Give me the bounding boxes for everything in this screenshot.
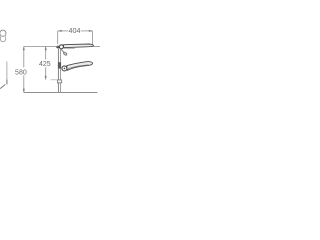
left edge handle lower outline xyxy=(0,36,5,41)
arrow right of 404 xyxy=(89,30,93,32)
small diagonal lever xyxy=(61,49,64,52)
top lever left knob xyxy=(56,46,59,49)
top lever blade lower contour xyxy=(64,47,75,50)
pipe right edge middle xyxy=(60,69,62,80)
dimension 404 line right segment xyxy=(81,30,93,32)
dimension 580 line lower xyxy=(23,75,25,92)
left edge handle circle xyxy=(0,30,6,36)
425 bottom reference tick xyxy=(51,79,58,81)
small diagonal lever paddle xyxy=(63,52,67,56)
left vertical line dark end xyxy=(6,80,8,85)
pipe left edge xyxy=(57,49,59,93)
svg-text:580: 580 xyxy=(15,70,27,77)
top lever blade xyxy=(64,44,94,48)
lower lever boss xyxy=(62,66,67,71)
svg-text:404: 404 xyxy=(69,26,81,35)
extension line left of 404 xyxy=(57,31,59,44)
arrow bottom of 580 xyxy=(23,89,25,93)
dimension 404 line left segment xyxy=(58,30,68,32)
dimension 425 line upper xyxy=(45,46,47,59)
bottom extension line xyxy=(24,92,98,94)
dimension 580 line upper xyxy=(23,46,25,67)
extension line right of 404 xyxy=(92,31,94,45)
top extension line (shared) xyxy=(24,45,58,47)
lower lever blade xyxy=(67,62,93,71)
svg-text:425: 425 xyxy=(39,61,51,68)
lower lever boss center xyxy=(64,68,66,70)
arrow bottom of 425 xyxy=(45,76,47,80)
dimension 425 line lower xyxy=(45,67,47,79)
lower lever inner contour xyxy=(68,65,89,69)
pipe right edge lower xyxy=(60,83,62,92)
arrow top of 580 xyxy=(23,46,25,50)
left vertical line xyxy=(6,62,8,85)
collar fitting xyxy=(57,80,61,83)
top lever boss xyxy=(59,45,63,49)
arrow left of 404 xyxy=(58,30,62,32)
left bottom diagonal xyxy=(0,84,5,88)
arrow top of 425 xyxy=(45,46,47,50)
valve body dark block xyxy=(58,62,61,68)
pipe right edge upper xyxy=(60,49,62,62)
right wall reference line xyxy=(90,46,100,48)
